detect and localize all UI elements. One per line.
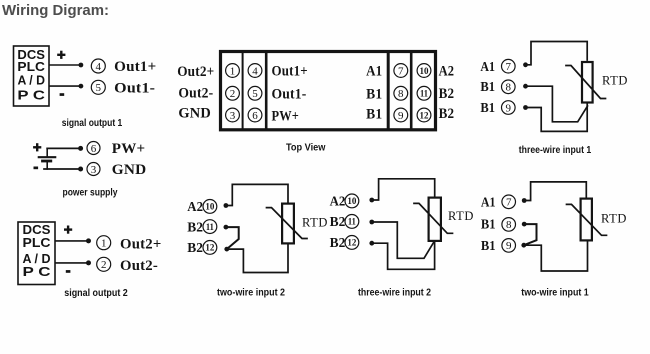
terminal 8 (three-wire input 1) (502, 80, 516, 94)
node dot 9 (two-wire input 1) (521, 243, 526, 248)
wire battery to PW+ (47, 147, 80, 149)
svg-text:Out2+: Out2+ (120, 237, 162, 253)
terminal 7 (two-wire input 1) (502, 195, 516, 209)
plus terminal (power supply) (33, 143, 41, 151)
plus terminal (signal output 2) (64, 226, 72, 234)
node dot 12 (three-wire input 2) (369, 241, 374, 246)
terminal 7 (three-wire input 1) (502, 59, 516, 73)
terminal 9 (three-wire input 1) (502, 101, 516, 115)
svg-text:B1: B1 (480, 80, 495, 95)
terminal 10 (Top View) (417, 64, 431, 78)
terminal 4 (91, 59, 105, 73)
wire battery to GND (44, 168, 81, 170)
svg-text:12: 12 (347, 238, 357, 248)
RTD sensor body (two-wire input 1) (581, 199, 592, 241)
svg-text:RTD: RTD (601, 212, 627, 226)
node dot 8 (three-wire input 1) (523, 84, 528, 89)
jumper wire 8 to 9 (two-wire input 1) (524, 224, 537, 245)
svg-text:Wiring Digram:: Wiring Digram: (2, 3, 109, 19)
svg-text:12: 12 (420, 110, 430, 120)
node dot 11 (three-wire input 2) (369, 220, 374, 225)
node dot 10 (three-wire input 2) (369, 198, 374, 203)
svg-text:10: 10 (347, 196, 357, 206)
RTD diagonal stroke (three-wire input 1) (566, 66, 606, 99)
terminal 5 (91, 80, 105, 94)
svg-text:11: 11 (206, 222, 214, 232)
svg-text:P C: P C (23, 265, 51, 279)
svg-text:Out2+: Out2+ (177, 64, 214, 80)
RTD diagonal stroke (three-wire input 2) (414, 203, 453, 233)
svg-text:2: 2 (230, 88, 236, 100)
battery BT1 (39, 148, 55, 169)
minus terminal (signal output 2) (66, 270, 71, 273)
wire terminal9 to RTD bottom (two-wire input 1) (524, 242, 588, 272)
svg-text:A1: A1 (481, 195, 496, 210)
svg-text:A1: A1 (480, 60, 495, 75)
terminal 2 (Top View) (226, 86, 240, 100)
svg-text:3: 3 (230, 110, 236, 122)
wire terminal10 to RTD top (two-wire input 2) (226, 184, 288, 205)
svg-text:two-wire input 1: two-wire input 1 (521, 287, 589, 299)
wire terminal12 to RTD bottom (two-wire input 2) (227, 245, 288, 273)
svg-text:8: 8 (506, 82, 512, 94)
svg-text:11: 11 (420, 89, 428, 99)
svg-text:9: 9 (506, 102, 512, 114)
minus terminal (signal output 1) (60, 93, 65, 96)
terminal 11 (two-wire input 2) (203, 220, 217, 234)
terminal 12 (two-wire input 2) (203, 241, 217, 255)
wire box to Out2- (55, 262, 88, 264)
svg-text:RTD: RTD (302, 216, 328, 230)
RTD sensor body (two-wire input 2) (282, 204, 294, 244)
wire terminal9 to RTD bottom rail (three-wire input 1) (526, 104, 588, 132)
svg-text:B2: B2 (330, 215, 346, 230)
wire terminal8 to RTD bottom (three-wire input 1) (526, 86, 588, 122)
svg-text:two-wire input 2: two-wire input 2 (217, 287, 285, 299)
svg-text:8: 8 (506, 219, 512, 231)
svg-text:Out1-: Out1- (272, 86, 307, 102)
node dot 8 (two-wire input 1) (522, 222, 527, 227)
svg-text:A2: A2 (439, 63, 455, 79)
svg-text:B2: B2 (439, 106, 455, 122)
svg-text:B1: B1 (481, 218, 496, 233)
svg-text:GND: GND (178, 106, 211, 122)
wire terminal10 to RTD top (three-wire input 2) (372, 179, 435, 200)
svg-text:PW+: PW+ (272, 108, 300, 124)
svg-text:B2: B2 (439, 86, 455, 102)
svg-text:1: 1 (101, 238, 107, 250)
node dot PW+ (78, 146, 83, 151)
svg-text:B2: B2 (330, 236, 346, 251)
plus terminal (signal output 1) (57, 51, 65, 59)
svg-text:Out2-: Out2- (120, 258, 158, 274)
svg-text:10: 10 (205, 202, 215, 212)
svg-text:three-wire input 2: three-wire input 2 (358, 287, 431, 299)
node dot Out2- (86, 260, 91, 265)
terminal 11 (three-wire input 2) (345, 215, 359, 229)
svg-text:A2: A2 (330, 195, 346, 210)
node dot Out2+ (86, 238, 91, 243)
svg-text:10: 10 (420, 66, 430, 76)
wire box to Out1- (49, 85, 81, 87)
terminal 1 (Top View) (226, 64, 240, 78)
svg-text:B2: B2 (187, 241, 203, 256)
terminal 3 (87, 163, 100, 176)
svg-text:4: 4 (96, 61, 102, 73)
svg-text:GND: GND (112, 162, 147, 178)
node dot Out1- (79, 84, 84, 89)
svg-text:4: 4 (252, 65, 258, 77)
terminal 8 (two-wire input 1) (502, 218, 516, 232)
column divider 1 (242, 53, 244, 129)
DCS/PLC interface box (signal output 2) (18, 222, 55, 285)
svg-text:Out1+: Out1+ (114, 59, 156, 75)
wire box to Out2+ (55, 240, 88, 242)
node dot 7 (three-wire input 1) (523, 62, 528, 67)
svg-text:7: 7 (506, 61, 512, 73)
terminal 9 (Top View) (394, 108, 408, 122)
terminal 10 (three-wire input 2) (345, 194, 359, 208)
svg-text:B1: B1 (480, 101, 495, 116)
wire terminal12 to RTD bottom rail (three-wire input 2) (372, 242, 435, 269)
svg-text:B1: B1 (366, 86, 382, 102)
svg-text:B2: B2 (187, 220, 203, 235)
terminal 6 (Top View) (248, 108, 262, 122)
module outline (Top View) (221, 52, 436, 130)
column divider 2 (265, 53, 268, 129)
svg-text:RTD: RTD (602, 74, 628, 88)
svg-text:DCS: DCS (23, 223, 51, 237)
RTD sensor body (three-wire input 2) (429, 198, 441, 241)
svg-text:PLC: PLC (23, 236, 51, 250)
svg-text:B1: B1 (481, 239, 496, 254)
svg-text:Top View: Top View (286, 142, 326, 154)
RTD sensor body (three-wire input 1) (582, 62, 593, 103)
svg-text:9: 9 (506, 240, 512, 252)
svg-text:A1: A1 (366, 64, 382, 80)
terminal 10 (two-wire input 2) (203, 200, 217, 214)
svg-text:1: 1 (230, 65, 236, 77)
svg-text:Out1+: Out1+ (272, 64, 308, 80)
svg-text:11: 11 (348, 217, 356, 227)
svg-text:5: 5 (252, 88, 258, 100)
terminal 11 (Top View) (417, 86, 431, 100)
svg-text:2: 2 (101, 259, 107, 271)
svg-text:P C: P C (17, 88, 45, 102)
wire box to Out1+ (49, 64, 81, 66)
wire terminal11 to RTD bottom (three-wire input 2) (372, 222, 434, 258)
svg-text:3: 3 (91, 164, 97, 176)
svg-text:6: 6 (252, 110, 258, 122)
svg-text:7: 7 (398, 65, 404, 77)
terminal 2 (97, 257, 111, 271)
svg-text:5: 5 (96, 82, 102, 94)
terminal 4 (Top View) (248, 64, 262, 78)
terminal 6 (87, 142, 100, 155)
svg-text:A / D: A / D (17, 74, 45, 88)
svg-text:7: 7 (506, 197, 512, 209)
svg-text:Out1-: Out1- (114, 80, 155, 96)
node dot 11 (two-wire input 2) (224, 225, 229, 230)
terminal 5 (Top View) (248, 86, 262, 100)
svg-text:three-wire input 1: three-wire input 1 (519, 144, 592, 156)
terminal 12 (three-wire input 2) (345, 236, 359, 250)
RTD diagonal stroke (two-wire input 1) (567, 204, 607, 235)
DCS/PLC interface box (signal output 1) (14, 46, 50, 106)
svg-text:signal output 2: signal output 2 (64, 287, 128, 299)
svg-text:9: 9 (398, 110, 404, 122)
svg-text:Out2-: Out2- (178, 86, 213, 102)
column divider 3 (387, 53, 390, 129)
node dot 9 (three-wire input 1) (523, 105, 528, 110)
node dot 7 (two-wire input 1) (522, 198, 527, 203)
terminal 3 (Top View) (226, 108, 240, 122)
wire terminal7 to RTD top (three-wire input 1) (526, 42, 588, 65)
terminal 8 (Top View) (394, 86, 408, 100)
terminal 1 (97, 236, 111, 250)
svg-text:B1: B1 (366, 106, 382, 122)
column divider 4 (410, 53, 413, 129)
jumper wire 11 to 12 (two-wire input 2) (226, 227, 239, 249)
svg-text:PLC: PLC (17, 60, 45, 74)
RTD diagonal stroke (two-wire input 2) (267, 208, 308, 239)
svg-text:8: 8 (398, 88, 404, 100)
wire terminal7 to RTD top (two-wire input 1) (524, 182, 586, 201)
node dot 12 (two-wire input 2) (224, 247, 229, 252)
minus terminal (power supply) (34, 167, 39, 170)
svg-text:signal output 1: signal output 1 (62, 117, 123, 129)
svg-text:A / D: A / D (23, 252, 51, 266)
svg-text:power supply: power supply (63, 187, 118, 199)
svg-text:6: 6 (91, 143, 97, 155)
svg-text:12: 12 (205, 243, 215, 253)
node dot 10 (two-wire input 2) (224, 203, 229, 208)
svg-text:PW+: PW+ (112, 141, 146, 157)
svg-text:RTD: RTD (448, 209, 474, 223)
node dot Out1+ (79, 63, 84, 68)
terminal 9 (two-wire input 1) (502, 239, 516, 253)
node dot GND (78, 167, 83, 172)
svg-text:A2: A2 (187, 200, 203, 215)
terminal 12 (Top View) (417, 108, 431, 122)
terminal 7 (Top View) (394, 64, 408, 78)
